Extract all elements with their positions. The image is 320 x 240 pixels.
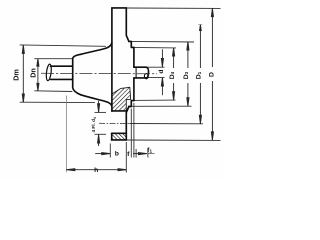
dim d (outside arrows) (161, 49, 163, 67)
cylinder top extension to d (146, 66, 165, 68)
Dn bottom extension line (34, 90, 72, 93)
dim D4 (173, 48, 175, 68)
svg-text:Dm: Dm (11, 69, 20, 81)
f1 left extension (pilot face) (133, 103, 135, 158)
b left extension (109, 144, 111, 158)
shaft (51, 65, 73, 67)
hatch area below bolt hole (flange section) (112, 133, 127, 140)
D1 top stub (198, 24, 203, 26)
dim f1 arrow (133, 153, 147, 155)
svg-text:b: b (115, 151, 119, 158)
dim Dm (22, 45, 24, 103)
dim b left arrow (95, 153, 110, 155)
hatch area above bolt hole (cone wall + flange + boss section) (112, 87, 131, 111)
cylinder root shoulder (135, 67, 137, 78)
dim h (66, 169, 126, 171)
Dn top extension line (34, 58, 72, 60)
svg-text:D4: D4 (169, 71, 176, 79)
chamfer + flange right face bottom (126, 107, 129, 140)
boss top extension to D3 (129, 40, 194, 43)
svg-text:D3: D3 (183, 71, 190, 79)
pilot face top (133, 47, 135, 67)
svg-text:D1: D1 (195, 71, 202, 79)
cylinder bottom extension to d (146, 77, 164, 79)
flange top extension to D (126, 7, 220, 9)
main shaft centerline (41, 72, 157, 75)
cone left face with corner radii (73, 54, 81, 95)
f right extension (boss face) (130, 109, 132, 158)
svg-text:4 Fl. d4: 4 Fl. d4 (91, 117, 97, 133)
dim 4Fl.d4 leader arrows (98, 101, 100, 112)
pilot top extension to D4 (131, 46, 176, 49)
d4 hole top stub (95, 111, 107, 113)
dim D3 (187, 42, 189, 68)
bolt axis extension to D1 (130, 123, 204, 125)
b right / h right extension (125, 142, 127, 173)
pilot face bottom (133, 78, 135, 101)
svg-text:f: f (127, 151, 130, 158)
flange plate (112, 7, 126, 9)
boss bottom extension to D3 (129, 105, 192, 107)
pilot bottom extension to D4 (131, 99, 175, 101)
Dm bottom extension line (20, 101, 95, 103)
bolt hole centerline (99, 122, 130, 124)
dim D1 (199, 25, 201, 68)
h left extension (65, 96, 67, 173)
d4 hole bottom stub (95, 133, 107, 135)
dim Dn (37, 59, 39, 91)
hole bottom edge (112, 132, 127, 134)
svg-text:f1: f1 (147, 147, 152, 154)
cone top edge (81, 43, 112, 54)
svg-text:Dn: Dn (29, 68, 38, 78)
boss top (129, 41, 134, 47)
hole top edge (112, 110, 126, 112)
flange right face top + chamfer (126, 8, 129, 41)
dim D (211, 8, 213, 67)
rear cylinder (134, 66, 146, 68)
f1 left extension (cylinder root) (135, 149, 137, 158)
svg-text:h: h (94, 167, 98, 174)
svg-text:d: d (158, 69, 165, 73)
svg-text:D: D (208, 72, 215, 77)
flange bottom extension to D (126, 139, 220, 141)
cone bottom edge (81, 95, 112, 106)
Dm top extension line (20, 45, 106, 46)
f1 right stub (147, 149, 149, 158)
